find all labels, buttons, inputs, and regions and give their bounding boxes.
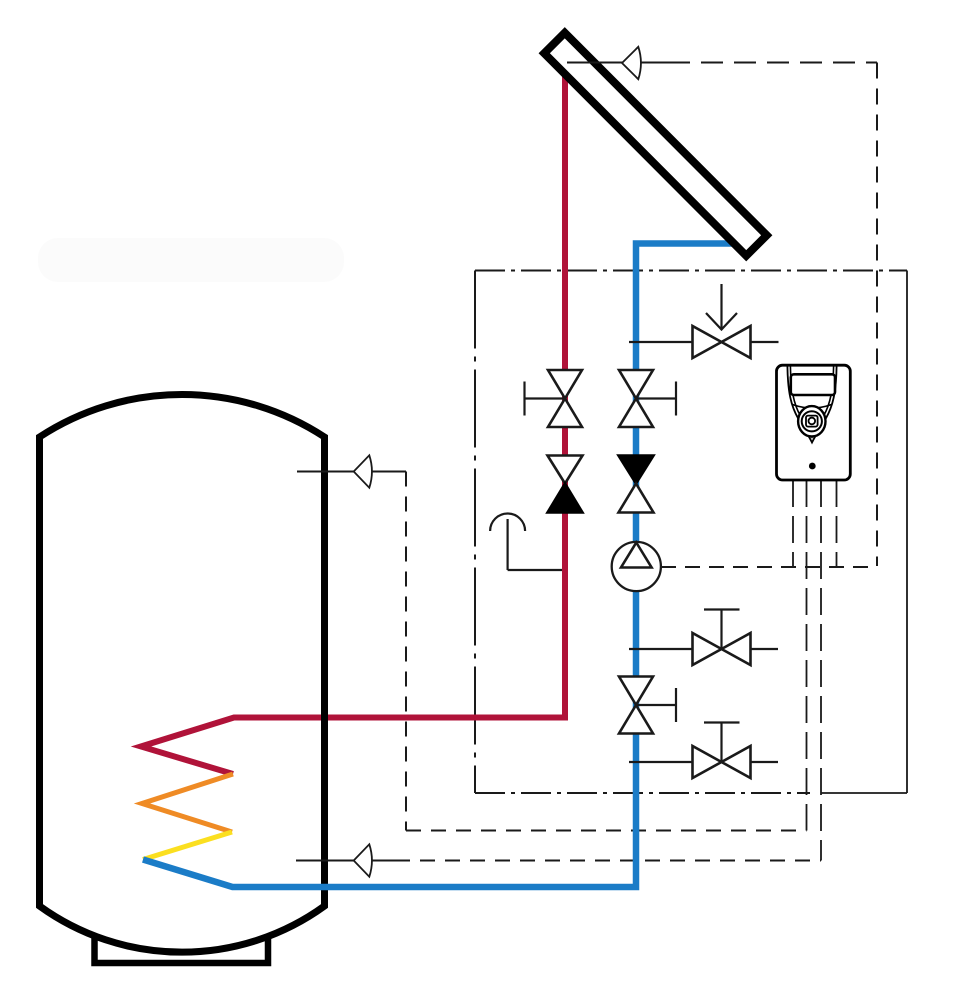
wire: upper tank sensor dashed drop bbox=[405, 472, 407, 831]
branch valve V3 (bottom branch) bbox=[629, 723, 778, 763]
pump station boundary: left dash-dot edge bbox=[474, 271, 476, 794]
shutoff valve on hot pipe bbox=[548, 370, 582, 427]
branch valve V2 (middle branch) bbox=[629, 610, 778, 650]
lower tank temperature sensor flag bbox=[354, 844, 372, 876]
upper tank sensor line (solid stub) bbox=[297, 471, 406, 473]
storage tank body bbox=[40, 394, 325, 952]
wire: controller wire w4 to collector sensor drop bbox=[836, 480, 838, 566]
coil segment yellow bbox=[143, 832, 232, 860]
faint background remnant bbox=[38, 238, 344, 282]
wire: controller wire w2 to upper tank sensor bbox=[806, 480, 808, 831]
upper tank temperature sensor flag bbox=[354, 455, 372, 487]
wire: controller wire w3 to lower tank sensor bbox=[820, 480, 822, 861]
collector temperature sensor flag bbox=[622, 47, 641, 79]
pump station boundary: top dash-dot edge bbox=[475, 270, 907, 272]
pump station boundary: bottom dash-dot edge bbox=[475, 792, 810, 794]
wire: solid right vertical bbox=[906, 271, 908, 794]
wire: collector sensor dashed drop (right) bbox=[876, 63, 878, 567]
wires group bbox=[395, 63, 907, 861]
check valve on hot pipe bbox=[548, 456, 583, 484]
tank base bbox=[95, 903, 269, 963]
wire: upper tank sensor dashed run bbox=[406, 830, 807, 832]
wire: solid link bottom-right bbox=[821, 792, 907, 794]
pipe: cold (blue) return from tank to collector bbox=[143, 244, 733, 888]
wire: collector sensor dashed run (top) bbox=[668, 62, 877, 64]
circulation pump bbox=[612, 542, 661, 591]
wire: controller wire w1 to pump bus bbox=[792, 480, 794, 566]
collector sensor line (solid stub) bbox=[567, 62, 668, 64]
pipe: hot (red) supply from collector to tank coil bbox=[141, 66, 565, 774]
solar collector panel bbox=[544, 33, 767, 256]
safety vent symbol bbox=[490, 514, 562, 570]
pipes group bbox=[141, 66, 733, 887]
lower tank sensor line (solid stub) bbox=[296, 860, 395, 862]
fill/drain valve V1 with arrow (top branch) bbox=[629, 284, 779, 342]
wire: lower tank sensor dashed run bbox=[395, 860, 821, 862]
symbols group bbox=[296, 33, 850, 877]
coil segment orange bbox=[142, 774, 233, 832]
shutoff valve on cold pipe bbox=[619, 370, 653, 427]
check valve on cold pipe bbox=[619, 456, 654, 484]
wire: pump / controller dashed bus bbox=[661, 566, 877, 568]
solar controller unit bbox=[777, 365, 851, 480]
inline valve on cold pipe (lower) bbox=[619, 677, 653, 734]
tank wall redraw over red pipe bbox=[321, 700, 328, 740]
